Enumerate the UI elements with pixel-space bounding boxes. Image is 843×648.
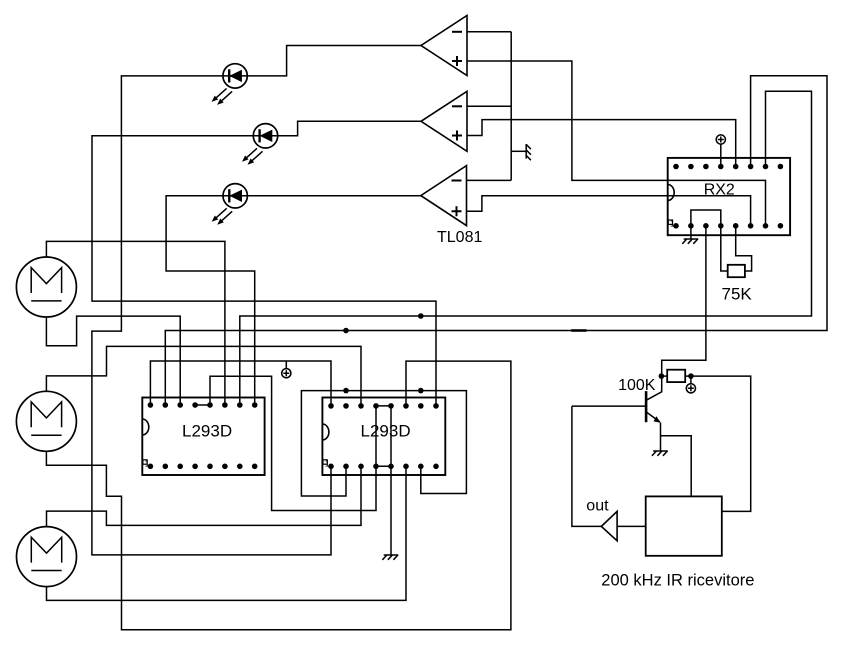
wire op3 minus input xyxy=(467,179,512,181)
junction netA at IC2 pin2 xyxy=(343,328,349,334)
LED D1 xyxy=(212,64,248,105)
+V rail IC1 pin1 to IC2 pin1 xyxy=(150,361,331,406)
power + P3 at 100K xyxy=(690,376,692,384)
wire RX2 pin4 to resistor 75K xyxy=(721,226,728,271)
svg-text:100K: 100K xyxy=(618,377,656,394)
wire op1 plus to RX2 pin15 xyxy=(467,61,766,226)
wire base xyxy=(572,405,645,407)
wire motor M1 top to IC1 pin top6 xyxy=(46,241,225,405)
wire motor M2 top to IC2 pin top3 xyxy=(46,346,361,406)
svg-text:L293D: L293D xyxy=(182,422,232,441)
wire IC1 pins 4-5 link xyxy=(195,404,210,406)
LED D2 xyxy=(242,124,278,165)
wire op2 minus input xyxy=(467,105,511,107)
wire motor M3 bottom to IC2 pin bottom6 xyxy=(47,466,407,600)
wire IC2 pins4-5 staple xyxy=(376,406,391,466)
op-amp U2 xyxy=(421,91,467,151)
wire IC2 pin bottom2 / top7 / bottom7 loop xyxy=(301,391,466,496)
op-amp U3 xyxy=(421,166,467,226)
wire IC1 pin5 to IC2 pin bottom4 xyxy=(210,376,376,510)
svg-text:TL081: TL081 xyxy=(437,229,482,246)
wire 100K right lead xyxy=(685,375,691,377)
LED D3 xyxy=(212,184,248,225)
wire motor M1 bottom to IC1 pin top3 xyxy=(46,316,180,405)
junction loop at IC2 pin7 vertical xyxy=(418,388,424,394)
IC1 L293D xyxy=(142,398,264,476)
wire op2 output to LED D2 xyxy=(278,121,421,136)
junction 100K right xyxy=(688,373,694,379)
svg-text:out: out xyxy=(586,498,609,515)
wire ground stub xyxy=(511,150,526,152)
motor M2 xyxy=(16,391,76,451)
wire minus bus vertical xyxy=(510,32,512,181)
wire op3 plus to RX2 pin14 xyxy=(467,196,751,226)
transistor Q1 xyxy=(646,376,662,451)
wire netA doubled segment xyxy=(571,329,586,332)
wire RX2 pin5 to resistor 75K xyxy=(736,226,752,271)
buffer triangle out xyxy=(601,511,617,540)
op-amp U1 xyxy=(421,16,467,76)
wire 100K right to IR box right side xyxy=(691,376,751,511)
wire LED D3 left to IC1 pin top8 xyxy=(166,196,255,405)
wire RX2 pin2 to ground xyxy=(690,226,692,239)
IC2 L293D xyxy=(322,398,445,476)
wire LED D2 left to IC2 pin top8 xyxy=(92,136,436,406)
motor M3 xyxy=(17,527,77,587)
wire buffer to IR box xyxy=(617,525,646,527)
ground G2 xyxy=(382,555,398,560)
wire op3 output to LED D3 xyxy=(247,195,420,197)
wire IC2 pin bottom5 to ground xyxy=(390,466,392,555)
wire RX2 internal link pin2-pin4 xyxy=(691,210,721,226)
wire out: IR box to buffer to base xyxy=(572,406,601,526)
wire op1 minus input xyxy=(467,31,511,33)
power + P2 at RX2 xyxy=(716,135,725,144)
wire emitter branch to IR box top xyxy=(661,436,692,497)
svg-text:75K: 75K xyxy=(722,285,753,304)
ground G3 xyxy=(682,239,698,244)
wire 100K left lead xyxy=(661,375,667,377)
net B: IC1 pin7 / IC2 pin7 / RX2 top pin7 xyxy=(240,91,812,405)
junction 100K left xyxy=(659,373,665,379)
motor M1 xyxy=(16,257,76,317)
ground G1 xyxy=(526,144,531,160)
resistor R1 75K xyxy=(728,265,745,277)
junction netB at IC2 pin7 xyxy=(418,313,424,319)
wire + P2 stem to RX2 top pin4 xyxy=(720,144,722,166)
power + P1 stem xyxy=(285,361,287,369)
RX2 chip xyxy=(668,158,790,235)
net A: IC1 pin2 / IC2 pin2 / RX2 top pin6 xyxy=(165,76,827,405)
wire motor M2 bottom to IC2 pin top6 xyxy=(46,361,511,630)
IR receiver box xyxy=(646,496,722,555)
wire LED D1 left to IC2 pin bottom1 xyxy=(92,76,331,555)
wire RX2 pin3 to 100K junction xyxy=(662,226,706,376)
wire motor M3 top to IC2 pin bottom3 xyxy=(47,466,362,526)
wire op2 plus to RX2 pin5 xyxy=(467,120,736,167)
svg-text:200 kHz IR ricevitore: 200 kHz IR ricevitore xyxy=(601,572,754,590)
svg-text:RX2: RX2 xyxy=(704,181,735,198)
ground G4 at emitter xyxy=(652,451,668,456)
junction loop at IC2 pin2 vertical xyxy=(343,388,349,394)
resistor R2 100K xyxy=(667,370,685,382)
wire op1 output to LED D1 xyxy=(247,46,421,76)
svg-text:L293D: L293D xyxy=(361,422,411,441)
power + P1 xyxy=(282,369,291,378)
